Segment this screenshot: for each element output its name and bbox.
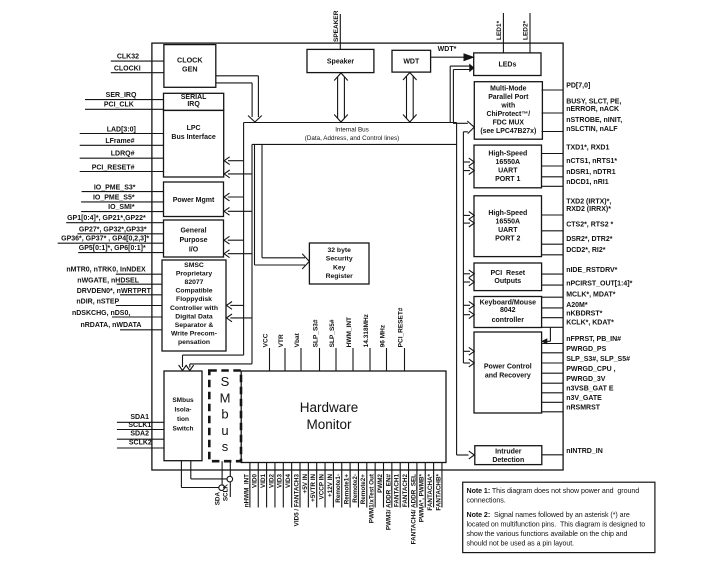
svg-text:located on multifunction pins.: located on multifunction pins. This diag… [467, 520, 646, 528]
svg-text:CTS2*, RTS2 *: CTS2*, RTS2 * [566, 222, 613, 229]
svg-text:CLOCK: CLOCK [177, 55, 203, 64]
svg-text:FANTACH4/ ADDR_SEL: FANTACH4/ ADDR_SEL [410, 474, 417, 544]
svg-text:96 MHz: 96 MHz [380, 324, 387, 347]
svg-text:VID5 / FANTACH3: VID5 / FANTACH3 [293, 474, 300, 527]
svg-text:ChiProtect™/: ChiProtect™/ [486, 111, 530, 118]
svg-text:nRDATA, nWDATA: nRDATA, nWDATA [80, 322, 141, 329]
svg-text:Write Precom-: Write Precom- [171, 330, 217, 337]
svg-text:SDA: SDA [215, 492, 222, 506]
svg-text:BUSY, SLCT, PE,: BUSY, SLCT, PE, [566, 99, 621, 106]
svg-text:(Data, Address, and Control li: (Data, Address, and Control lines) [305, 135, 400, 142]
svg-text:PCI_RESET#: PCI_RESET# [398, 307, 405, 347]
svg-text:GP1[0:4]*, GP21*,GP22*: GP1[0:4]*, GP21*,GP22* [67, 215, 146, 222]
svg-text:16550A: 16550A [496, 159, 521, 166]
svg-text:nSLCTIN, nALF: nSLCTIN, nALF [566, 126, 618, 133]
svg-text:I/O: I/O [189, 247, 199, 254]
svg-text:Vbat: Vbat [294, 332, 301, 347]
svg-text:PCI_CLK: PCI_CLK [104, 101, 134, 108]
svg-text:SMSC: SMSC [184, 262, 204, 269]
svg-text:nDIR, nSTEP: nDIR, nSTEP [76, 299, 119, 306]
svg-text:Separator &: Separator & [175, 322, 214, 329]
svg-text:nDCD1, nRI1: nDCD1, nRI1 [566, 179, 609, 186]
svg-text:LPC: LPC [187, 125, 201, 132]
svg-text:Security: Security [326, 256, 353, 263]
svg-text:PWRGD_CPU ,: PWRGD_CPU , [566, 366, 615, 373]
svg-text:Bus Interface: Bus Interface [171, 134, 215, 141]
svg-text:LED2*: LED2* [523, 20, 530, 40]
svg-text:FDC MUX: FDC MUX [493, 120, 525, 127]
svg-text:Digital Data: Digital Data [175, 313, 213, 320]
svg-text:IO_PME_S3*: IO_PME_S3* [94, 184, 136, 191]
svg-text:GP36*, GP37* , GP4[0,2,3]*: GP36*, GP37* , GP4[0,2,3]* [61, 236, 149, 243]
svg-text:Remote1+: Remote1+ [344, 474, 351, 505]
svg-text:PWM1/xTest Out: PWM1/xTest Out [369, 473, 376, 523]
svg-text:show the various functions ava: show the various functions available on … [467, 530, 628, 538]
svg-text:(see LPC47B27x): (see LPC47B27x) [480, 128, 536, 135]
svg-text:CLOCKI: CLOCKI [114, 66, 141, 73]
svg-text:VID2: VID2 [268, 474, 275, 488]
svg-text:nERROR, nACK: nERROR, nACK [566, 106, 619, 113]
svg-text:LEDs: LEDs [498, 62, 516, 69]
svg-text:FANTACHB*: FANTACHB* [435, 473, 442, 510]
svg-text:Purpose: Purpose [179, 237, 207, 244]
svg-text:DSR2*, DTR2*: DSR2*, DTR2* [566, 236, 613, 243]
svg-text:Outputs: Outputs [494, 278, 521, 285]
svg-text:PCI Reset: PCI Reset [490, 270, 525, 277]
svg-text:SCLK: SCLK [223, 484, 230, 502]
svg-text:32 byte: 32 byte [327, 247, 351, 254]
svg-text:Remote2+: Remote2+ [360, 474, 367, 505]
svg-text:should not be used as a pin la: should not be used as a pin layout. [467, 539, 575, 547]
svg-text:GEN: GEN [182, 65, 198, 74]
svg-text:n3VSB_GAT E: n3VSB_GAT E [566, 386, 614, 393]
svg-text:SMbus: SMbus [172, 397, 194, 404]
svg-text:Power Control: Power Control [484, 364, 532, 371]
svg-text:IRQ: IRQ [187, 101, 200, 108]
svg-text:WDT*: WDT* [438, 46, 457, 53]
svg-text:nSTROBE, nINIT,: nSTROBE, nINIT, [566, 117, 622, 124]
svg-text:Key: Key [333, 264, 346, 271]
svg-text:VCCP IN: VCCP IN [318, 474, 325, 500]
svg-text:A20M*: A20M* [566, 302, 588, 309]
svg-text:SPEAKER: SPEAKER [333, 10, 340, 42]
svg-text:UART: UART [498, 168, 518, 175]
svg-text:nWGATE, nHDSEL: nWGATE, nHDSEL [77, 278, 139, 285]
svg-text:M: M [220, 390, 231, 405]
svg-text:PWRGD_PS: PWRGD_PS [566, 346, 606, 353]
svg-text:82077: 82077 [185, 279, 204, 286]
svg-text:nHWM_INT: nHWM_INT [243, 474, 250, 507]
svg-text:connections.: connections. [467, 496, 506, 504]
svg-text:DCD2*, RI2*: DCD2*, RI2* [566, 247, 606, 254]
svg-text:PORT 1: PORT 1 [495, 176, 520, 183]
svg-text:Internal Bus: Internal Bus [335, 126, 369, 133]
svg-text:b: b [221, 407, 228, 422]
svg-text:16550A: 16550A [496, 218, 521, 225]
svg-text:n3V_GATE: n3V_GATE [566, 395, 602, 402]
svg-text:Controller with: Controller with [170, 305, 218, 312]
svg-text:SLP_S3#: SLP_S3# [313, 319, 320, 347]
svg-text:SLP_S5#: SLP_S5# [329, 319, 336, 347]
svg-text:VID1: VID1 [260, 474, 267, 488]
svg-text:Monitor: Monitor [306, 417, 352, 432]
svg-text:RXD2 (IRRX)*: RXD2 (IRRX)* [566, 206, 611, 213]
svg-text:Note 1: This diagram does not: Note 1: This diagram does not show power… [467, 487, 640, 495]
svg-text:nPCIRST_OUT[1:4]*: nPCIRST_OUT[1:4]* [566, 281, 632, 288]
svg-text:HWM_INT: HWM_INT [346, 317, 353, 347]
svg-text:Speaker: Speaker [327, 59, 355, 66]
svg-text:CLK32: CLK32 [117, 54, 139, 61]
svg-text:nDSKCHG, nDS0,: nDSKCHG, nDS0, [72, 310, 130, 317]
svg-text:nFPRST, PB_IN#: nFPRST, PB_IN# [566, 336, 621, 343]
svg-text:pensation: pensation [178, 339, 210, 346]
svg-text:VCC: VCC [263, 333, 270, 347]
svg-text:Parallel Port: Parallel Port [488, 94, 529, 101]
svg-text:General: General [180, 228, 206, 235]
svg-text:High-Speed: High-Speed [488, 210, 527, 217]
svg-text:Remote2-: Remote2- [352, 474, 359, 503]
svg-text:PWRGD_3V: PWRGD_3V [566, 376, 606, 383]
svg-text:u: u [221, 423, 228, 438]
svg-text:SER_IRQ: SER_IRQ [106, 92, 137, 99]
svg-text:PORT 2: PORT 2 [495, 235, 520, 242]
svg-text:S: S [221, 374, 230, 389]
svg-text:Hardware: Hardware [300, 400, 359, 415]
svg-text:PWMA*, PWMB*: PWMA*, PWMB* [419, 473, 426, 522]
svg-text:MCLK*, MDAT*: MCLK*, MDAT* [566, 292, 616, 299]
svg-text:+5V IN: +5V IN [302, 474, 309, 494]
svg-text:nIDE_RSTDRV*: nIDE_RSTDRV* [566, 267, 617, 274]
svg-text:KCLK*, KDAT*: KCLK*, KDAT* [566, 320, 614, 327]
svg-text:Remote1-: Remote1- [335, 474, 342, 503]
svg-text:DRVDEN0*, nWRTPRT: DRVDEN0*, nWRTPRT [77, 288, 152, 295]
svg-text:UART: UART [498, 227, 518, 234]
svg-text:TXD1*, RXD1: TXD1*, RXD1 [566, 145, 609, 152]
svg-text:Power Mgmt: Power Mgmt [173, 197, 215, 204]
svg-text:LDRQ#: LDRQ# [111, 150, 135, 157]
svg-text:LFrame#: LFrame# [105, 138, 134, 145]
svg-text:LAD[3:0]: LAD[3:0] [107, 127, 136, 134]
svg-text:High-Speed: High-Speed [488, 150, 527, 157]
svg-text:+5VTR IN: +5VTR IN [310, 474, 317, 502]
svg-text:Floppydisk: Floppydisk [176, 296, 212, 303]
svg-text:nDSR1, nDTR1: nDSR1, nDTR1 [566, 169, 616, 176]
svg-text:LED1*: LED1* [496, 20, 503, 40]
svg-text:Switch: Switch [173, 426, 194, 433]
svg-text:SLP_S3#, SLP_S5#: SLP_S3#, SLP_S5# [566, 356, 630, 363]
svg-text:nMTR0, nTRK0, InNDEX: nMTR0, nTRK0, InNDEX [66, 267, 146, 274]
svg-text:nINTRD_IN: nINTRD_IN [566, 448, 603, 455]
svg-text:VID3: VID3 [277, 474, 284, 488]
svg-text:FANTACH1: FANTACH1 [394, 474, 401, 508]
svg-text:GP5[0:1]*, GP6[0:1]*: GP5[0:1]*, GP6[0:1]* [79, 245, 146, 252]
svg-text:Multi-Mode: Multi-Mode [490, 86, 527, 93]
svg-text:nKBDRST*: nKBDRST* [566, 311, 602, 318]
svg-text:SCLK1: SCLK1 [128, 422, 151, 429]
svg-text:Register: Register [326, 273, 354, 280]
svg-text:PWM2: PWM2 [377, 474, 384, 493]
svg-text:Proprietary: Proprietary [176, 271, 212, 278]
svg-text:nCTS1, nRTS1*: nCTS1, nRTS1* [566, 158, 617, 165]
svg-text:Compatible: Compatible [175, 288, 212, 295]
svg-text:FANTACH2: FANTACH2 [402, 474, 409, 508]
svg-text:controller: controller [492, 317, 525, 324]
svg-text:FANTACHA*: FANTACHA* [427, 473, 434, 510]
svg-text:Intruder: Intruder [495, 448, 522, 455]
svg-text:+12V IN: +12V IN [327, 474, 334, 497]
svg-text:Detection: Detection [492, 457, 524, 464]
svg-text:GP27*, GP32*,GP33*: GP27*, GP32*,GP33* [79, 226, 147, 233]
svg-text:IO_SMI*: IO_SMI* [108, 204, 135, 211]
svg-text:VTR: VTR [278, 334, 285, 347]
svg-text:8042: 8042 [500, 307, 516, 314]
svg-text:Isola-: Isola- [175, 406, 192, 413]
svg-text:SDA1: SDA1 [130, 414, 149, 421]
svg-text:TXD2 (IRTX)*,: TXD2 (IRTX)*, [566, 199, 611, 206]
svg-text:tion: tion [177, 416, 189, 423]
svg-text:PCI_RESET#: PCI_RESET# [92, 164, 135, 171]
svg-text:and Recovery: and Recovery [485, 373, 531, 380]
svg-text:VID4: VID4 [285, 474, 292, 488]
svg-text:VID0: VID0 [252, 474, 259, 488]
svg-text:IO_PME_S5*: IO_PME_S5* [93, 195, 135, 202]
svg-text:SDA2: SDA2 [130, 431, 149, 438]
svg-text:Keyboard/Mouse: Keyboard/Mouse [480, 300, 537, 307]
svg-text:PD[7,0]: PD[7,0] [566, 83, 590, 90]
svg-text:WDT: WDT [403, 58, 420, 65]
svg-text:s: s [222, 439, 229, 454]
svg-text:Note 2: Signal names followed: Note 2: Signal names followed by an aste… [467, 511, 630, 519]
svg-text:14.318MHz: 14.318MHz [363, 313, 370, 347]
svg-text:SERIAL: SERIAL [181, 94, 207, 101]
svg-text:with: with [500, 103, 515, 110]
svg-text:PWM3/ ADDR_EN#: PWM3/ ADDR_EN# [385, 474, 392, 531]
svg-text:nRSMRST: nRSMRST [566, 405, 601, 412]
svg-text:SCLK2: SCLK2 [129, 440, 152, 447]
